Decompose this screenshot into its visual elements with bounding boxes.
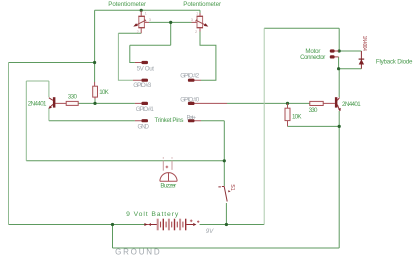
svg-text:2N4401: 2N4401 xyxy=(28,101,47,108)
svg-text:2N4401: 2N4401 xyxy=(342,101,361,108)
svg-text:330: 330 xyxy=(68,94,78,101)
svg-text:Flyback Diode: Flyback Diode xyxy=(376,59,413,66)
svg-text:Connector: Connector xyxy=(300,54,325,61)
svg-text:Bat+: Bat+ xyxy=(187,114,197,121)
svg-text:10K: 10K xyxy=(99,89,109,96)
svg-text:GPIO #3: GPIO #3 xyxy=(133,82,152,89)
svg-text:5V Out: 5V Out xyxy=(137,66,155,73)
svg-text:GPIO #1: GPIO #1 xyxy=(136,106,155,113)
svg-text:330: 330 xyxy=(309,107,318,114)
svg-text:GPIO #0: GPIO #0 xyxy=(180,96,200,103)
svg-text:1N4004: 1N4004 xyxy=(361,36,367,51)
svg-text:Buzzer: Buzzer xyxy=(160,183,176,190)
svg-text:GND: GND xyxy=(138,123,150,130)
svg-text:Trinket Pins: Trinket Pins xyxy=(155,117,184,124)
svg-text:9 Volt Battery: 9 Volt Battery xyxy=(126,211,179,218)
svg-text:GPIO #2: GPIO #2 xyxy=(180,73,200,80)
svg-text:9V: 9V xyxy=(206,228,214,235)
svg-text:10K: 10K xyxy=(292,113,302,120)
svg-text:Potentiometer: Potentiometer xyxy=(108,1,146,8)
svg-text:S1: S1 xyxy=(229,184,235,191)
svg-text:Potentiometer: Potentiometer xyxy=(183,1,221,8)
